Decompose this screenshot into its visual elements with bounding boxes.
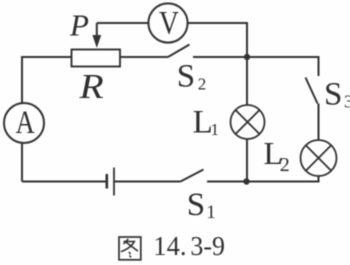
- svg-text:P: P: [69, 7, 89, 42]
- svg-text:1: 1: [206, 202, 216, 223]
- svg-text:1: 1: [211, 120, 220, 139]
- svg-text:V: V: [159, 4, 179, 41]
- svg-text:2: 2: [280, 154, 290, 176]
- svg-text:S: S: [324, 77, 342, 113]
- svg-text:S: S: [187, 187, 205, 223]
- svg-text:R: R: [78, 68, 103, 106]
- svg-text:3-9: 3-9: [190, 230, 225, 261]
- svg-text:3: 3: [344, 92, 350, 112]
- svg-text:A: A: [16, 104, 35, 140]
- svg-text:14.: 14.: [153, 230, 186, 261]
- svg-text:2: 2: [198, 75, 207, 94]
- svg-text:S: S: [177, 58, 195, 94]
